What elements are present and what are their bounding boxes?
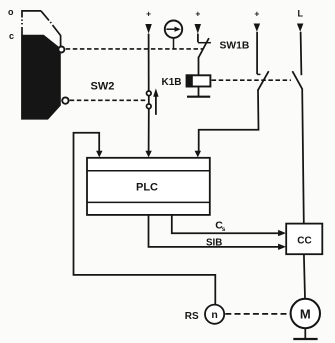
svg-text:SIB: SIB [206, 237, 222, 248]
arrow into PLC input 2 [145, 151, 151, 158]
contact K1B-a fixed tick [257, 73, 260, 75]
arrow into PLC input 3 [195, 151, 201, 158]
svg-text:SW1B: SW1B [220, 41, 250, 52]
supply terminal triangle 4 [297, 24, 304, 32]
mechanical dashed link from circle 2 to SW2 [70, 99, 146, 101]
switch SW2 contact circle upper [147, 91, 152, 96]
mechanical dashed link from circle 1 to SW1B [66, 48, 203, 50]
svg-text:SW2: SW2 [91, 80, 115, 92]
svg-text:n: n [211, 309, 217, 321]
wire: motor to ground [304, 328, 306, 338]
mechanical dashed link from K1B coil to contacts [212, 79, 291, 81]
supply terminal triangle 2 [195, 24, 202, 34]
feedback wire from speed sensor to PLC input 1 [74, 133, 216, 305]
contact K1B-b moving arm [292, 71, 302, 88]
svg-text:CC: CC [297, 236, 311, 247]
svg-text:+: + [195, 9, 200, 19]
switch SW2 contact circle lower [147, 104, 152, 109]
wire: coil to common bar [198, 87, 200, 97]
svg-text:K1B: K1B [162, 77, 182, 88]
arrow SIB into CC [278, 244, 286, 250]
svg-text:c: c [9, 31, 14, 41]
svg-text:M: M [300, 307, 311, 322]
cam follower contact circle 2 [62, 97, 68, 103]
wire: PLC output Cs [172, 215, 279, 233]
svg-text:PLC: PLC [136, 182, 158, 194]
arrow Cs into CC [278, 230, 286, 236]
wire: line 2 to coil [198, 57, 200, 75]
wire: line 1 between contacts [148, 96, 150, 104]
wire: line 2 upper [197, 34, 199, 43]
contact K1B-a moving arm [258, 71, 269, 90]
svg-text:L: L [298, 9, 304, 19]
wire: line 3 upper [256, 32, 258, 74]
mechanical dashed link sensor to motor [225, 313, 290, 315]
wire: PLC output SIB [149, 215, 279, 247]
relay coil K1B [186, 74, 211, 87]
switch SW1B fixed contact tick [198, 42, 211, 44]
wire: line 1 lower [148, 109, 150, 151]
speed sensor n [205, 305, 224, 324]
cam follower contact circle 1 [58, 47, 64, 53]
svg-text:s: s [222, 226, 226, 233]
svg-text:+: + [254, 9, 259, 19]
wire: line 1 upper [148, 34, 150, 91]
actuator circle with arrow (drive) [165, 21, 182, 49]
wire: CC to motor [304, 254, 305, 299]
ground bar under motor [293, 338, 317, 340]
svg-text:+: + [146, 9, 151, 19]
motor M [291, 299, 320, 328]
wire: line 4 upper [300, 32, 303, 75]
supply terminal triangle 1 [145, 24, 152, 34]
wire: line 4 down to CC [302, 88, 304, 223]
cam closed region (black) [21, 35, 61, 120]
CC block [286, 224, 322, 255]
supply terminal triangle 3 [254, 24, 261, 32]
switch SW1B moving arm [199, 38, 209, 57]
arrow into PLC input 1 [96, 151, 102, 158]
PLC block [87, 158, 210, 215]
svg-text:o: o [8, 7, 14, 17]
SW2 operating direction arrow [153, 88, 158, 114]
wire: line 3 lower, turn to PLC [199, 90, 259, 151]
common bar (ground) [187, 96, 210, 98]
cam travel outline (open region) [22, 11, 61, 46]
svg-text:RS: RS [185, 311, 199, 322]
cam outline dash-dot on left edge [22, 20, 51, 25]
